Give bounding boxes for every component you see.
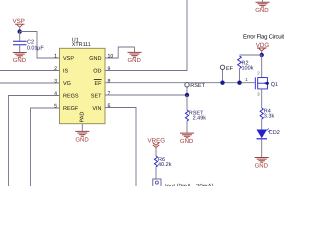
capacitor C2 [13, 40, 44, 52]
resistor R2 100k [238, 56, 254, 71]
svg-text:SET: SET [91, 94, 102, 100]
power VREG label [148, 138, 166, 157]
node SET junction [185, 93, 189, 97]
ground below C2 [13, 53, 27, 58]
wire VDG node down to Q1 drain [261, 55, 263, 78]
wire pin 8 EF to Q1 gate [105, 82, 255, 84]
svg-text:1: 1 [54, 53, 57, 59]
wire pin 4 REGS down off bottom [9, 96, 60, 187]
svg-text:EF: EF [94, 81, 102, 87]
transistor Q1 PMOS [255, 77, 267, 89]
svg-text:GND: GND [75, 137, 89, 144]
wire C2 to ground [19, 45, 21, 52]
wire RSET to ground [186, 121, 188, 133]
svg-text:CD2: CD2 [269, 130, 280, 136]
node EF junction [220, 81, 224, 85]
power VSP label [13, 18, 25, 32]
svg-text:VSP: VSP [63, 56, 74, 62]
wire SET node down to RSET resistor [186, 95, 188, 110]
svg-text:OD: OD [93, 69, 101, 75]
IC U1 XTR111 body [60, 48, 106, 123]
svg-text:VIN: VIN [92, 106, 101, 112]
wire pin 10 GND to ground symbol [105, 47, 135, 58]
svg-text:8: 8 [108, 78, 111, 84]
wire pin 3 VG to left edge [0, 82, 60, 84]
wire LED to ground [261, 139, 263, 157]
svg-text:Q1: Q1 [271, 82, 278, 88]
svg-text:IS: IS [63, 69, 69, 75]
terminal block at bottom [153, 179, 161, 187]
svg-text:EF: EF [226, 66, 234, 72]
svg-text:3.3k: 3.3k [264, 114, 275, 120]
wire R2 bottom to EF wire [239, 69, 241, 83]
wire pin 5 REGF down off bottom [31, 108, 60, 186]
wire VSP dot to C2 [19, 32, 21, 42]
svg-text:VREG: VREG [148, 138, 166, 145]
svg-text:GND: GND [255, 7, 269, 14]
svg-text:REGF: REGF [63, 106, 79, 112]
wire VSP to pin1 corner [20, 32, 60, 59]
svg-text:GND: GND [180, 138, 194, 145]
ground below LED [255, 158, 269, 163]
svg-text:GND: GND [255, 162, 269, 169]
svg-text:7: 7 [108, 91, 111, 97]
svg-text:40.2k: 40.2k [158, 162, 172, 168]
node VSP junction [18, 29, 22, 33]
svg-text:GND: GND [13, 57, 27, 64]
terminal EF circle [222, 70, 224, 83]
resistor RSET 2.49k [185, 110, 206, 121]
svg-text:GND: GND [128, 57, 142, 64]
wire VDG to R2 top [240, 54, 262, 56]
svg-text:XTR111: XTR111 [72, 42, 91, 48]
svg-text:GND: GND [89, 56, 101, 62]
ground below RSET [180, 133, 194, 138]
node VDG junction [260, 53, 264, 57]
wire pin 9 OD up off top [105, 0, 187, 71]
svg-text:PAD: PAD [80, 112, 86, 123]
svg-text:2.49k: 2.49k [193, 115, 207, 121]
node R2/EF junction [237, 81, 241, 85]
wire PAD to ground [81, 124, 83, 132]
resistor R6 40.2k [154, 156, 171, 168]
svg-text:REGS: REGS [63, 94, 79, 100]
svg-text:Error Flag Circuit: Error Flag Circuit [243, 34, 284, 41]
svg-text:VG: VG [63, 81, 71, 87]
ground at pin 10 [134, 47, 136, 52]
wire pin 7 SET to RSET node [105, 94, 187, 96]
power VDG label [256, 42, 270, 55]
svg-text:0.01µF: 0.01µF [27, 45, 44, 51]
terminal RSET circle [186, 87, 188, 95]
ground top right [262, 0, 264, 2]
wire R6 to terminal [155, 167, 157, 179]
resistor R4 3.3k [260, 108, 274, 120]
svg-text:100k: 100k [242, 65, 254, 71]
wire pin 6 VIN down off bottom [105, 108, 136, 187]
wire pin 2 IS to left edge [0, 70, 60, 72]
wire Q1 source down to R4 [261, 89, 263, 108]
svg-text:Iout (0mA...20mA): Iout (0mA...20mA) [165, 183, 214, 186]
wire R4 to LED [261, 119, 263, 130]
LED CD2 [257, 129, 280, 139]
svg-text:RSET: RSET [190, 83, 205, 89]
ground below PAD [75, 131, 89, 136]
